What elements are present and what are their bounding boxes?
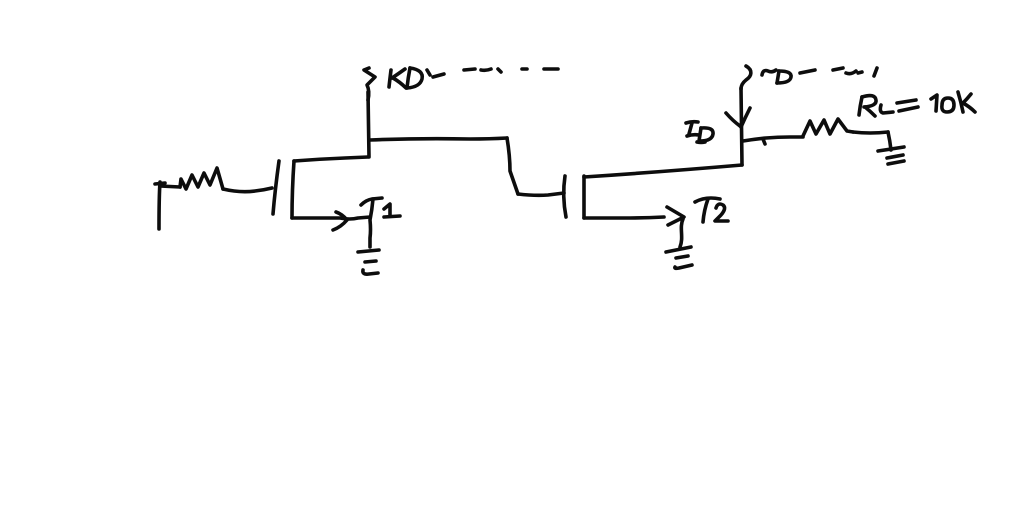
wire to RL	[743, 137, 803, 141]
ground T1	[358, 250, 379, 252]
arrow T2 source	[667, 207, 684, 225]
label I_D	[686, 122, 698, 123]
wire	[160, 186, 180, 187]
resistor RD2 squiggle	[741, 66, 751, 89]
wire T2 source	[584, 217, 664, 218]
wire	[223, 188, 272, 192]
wire	[741, 88, 742, 165]
arrow I_D	[726, 113, 740, 126]
wire T1 source	[292, 217, 370, 219]
transistor T2 channel bar	[582, 176, 586, 218]
transistor T1 channel bar	[292, 161, 294, 218]
cropped text dashes	[833, 68, 843, 70]
resistor RD1 squiggle	[364, 68, 375, 100]
arrow T1 source	[333, 212, 347, 230]
resistor R_in	[180, 168, 223, 189]
label RD1 (cropped)	[389, 70, 391, 87]
resistor RL	[803, 119, 853, 136]
wire node to T2	[370, 138, 507, 140]
wire T2 drain	[584, 165, 742, 177]
wire	[518, 193, 564, 195]
label T2	[695, 198, 720, 202]
wire	[368, 92, 369, 157]
wire step down	[507, 138, 518, 194]
cropped text dashes	[464, 69, 475, 70]
ground T2	[666, 247, 691, 252]
transistor T2 gate bar	[564, 176, 566, 217]
transistor T1 gate bar	[273, 161, 279, 214]
label RD2 (cropped)	[762, 70, 776, 75]
node input terminal	[159, 182, 160, 229]
label T1	[361, 198, 382, 205]
wire T1 drain	[294, 157, 368, 161]
ground RL	[878, 147, 904, 151]
wire down	[888, 132, 891, 150]
label R_L = 10k	[859, 97, 862, 115]
wire	[853, 132, 888, 133]
